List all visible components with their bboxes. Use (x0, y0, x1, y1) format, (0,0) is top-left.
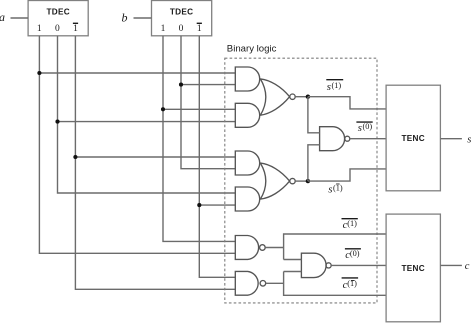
wire U2 output 1 vertical (163, 36, 235, 242)
nand gate G10 body (301, 253, 326, 277)
net label cbar(1bar) (343, 279, 358, 291)
and gate G3 (235, 151, 259, 175)
svg-text:1: 1 (161, 24, 166, 34)
svg-text:TENC: TENC (401, 264, 425, 273)
nand gate G8 body (235, 236, 258, 260)
nor gate G5 bubble (290, 94, 295, 99)
wire output s (440, 138, 462, 140)
nand gate G9 bubble (260, 281, 266, 287)
and gate G1 (235, 67, 259, 91)
node junction b1bar (197, 203, 201, 207)
svg-text:1: 1 (37, 24, 42, 34)
nor gate G5 body (260, 79, 289, 115)
node junction a0 (55, 120, 59, 124)
wire U2 output 0 vertical (181, 36, 235, 169)
svg-text:TDEC: TDEC (170, 8, 194, 17)
nor gate G6 bubble (290, 178, 295, 183)
svg-text:0: 0 (55, 24, 60, 34)
node junction b1 (161, 107, 165, 111)
wire cbar1bar branch to TENC (284, 272, 387, 296)
encoder U4 (TENC) box (386, 214, 440, 322)
nand gate G9 body (235, 271, 258, 295)
svg-text:1: 1 (197, 24, 202, 34)
svg-text:(1): (1) (333, 183, 343, 192)
wire sbar1 to TENC (308, 97, 386, 109)
net label cbar(1) (343, 219, 358, 231)
svg-text:(1): (1) (332, 81, 342, 90)
nand gate G7 bubble (345, 136, 350, 141)
wire nand G10 output cbar0 (331, 264, 386, 266)
wire AND2 bottom input (58, 121, 236, 123)
net label sbar(1) (327, 81, 342, 93)
wire nor G6 output (295, 180, 308, 182)
node junction b0 (179, 83, 183, 87)
encoder U3 (TENC) box (386, 85, 440, 191)
svg-text:TENC: TENC (401, 134, 425, 143)
wire AND1 top input (39, 72, 235, 74)
wire U1 output 1 vertical (39, 36, 235, 254)
svg-text:1: 1 (73, 24, 78, 34)
svg-text:(0): (0) (350, 249, 360, 258)
node s1bar junction (306, 179, 310, 183)
decoder U2 (TDEC) box (152, 1, 212, 36)
wire nor G5 output (295, 96, 308, 98)
wire AND2 top input (163, 108, 235, 110)
wire s1bar up to nand G7 bottom input (308, 145, 320, 181)
svg-text:TDEC: TDEC (46, 8, 70, 17)
svg-text:Binary logic: Binary logic (227, 43, 277, 54)
wire cbar1 branch to TENC (284, 234, 387, 260)
nand gate G8 bubble (260, 245, 266, 251)
wire U2 output 1bar vertical (199, 36, 235, 277)
wire nand G9 output (266, 282, 284, 284)
net label cbar(0) (345, 249, 360, 261)
wire s1bar to TENC (308, 169, 386, 181)
svg-text:s: s (358, 122, 362, 134)
dashed box Binary logic (225, 58, 377, 303)
wire AND3 top input (75, 156, 235, 158)
wire branch to nand G10 top input (284, 259, 302, 261)
svg-text:(1): (1) (347, 219, 357, 228)
svg-text:a: a (0, 10, 5, 24)
nor gate G6 body (260, 163, 289, 199)
svg-text:s: s (328, 183, 332, 195)
decoder U1 (TDEC) box (28, 1, 88, 36)
net label s(1bar) (328, 183, 343, 195)
svg-text:c: c (465, 261, 470, 272)
svg-text:(0): (0) (363, 122, 373, 131)
wire input b (134, 17, 152, 19)
and gate G2 (235, 103, 259, 127)
wire U1 output 1bar vertical (75, 36, 235, 289)
net label sbar(0) (358, 122, 373, 134)
wire U1 output 0 vertical (58, 36, 236, 193)
wire sbar1 down to nand G7 top input (308, 97, 320, 133)
node junction a1bar (73, 155, 77, 159)
wire AND1 bottom input (181, 84, 235, 86)
wire nand G7 output sbar0 (350, 138, 386, 140)
nand gate G7 body (320, 127, 345, 151)
node junction a1 (37, 71, 41, 75)
svg-text:b: b (122, 10, 128, 24)
wire AND4 bottom input (199, 204, 235, 206)
wire output c (440, 264, 462, 266)
wire branch to nand G10 bottom input (284, 271, 302, 273)
node sbar1 junction (306, 95, 310, 99)
svg-text:s: s (327, 81, 331, 93)
nand gate G10 bubble (326, 263, 331, 268)
wire nand G8 output (265, 247, 283, 249)
and gate G4 (235, 187, 259, 211)
wire input a (11, 17, 29, 19)
svg-text:0: 0 (179, 24, 184, 34)
svg-text:s: s (467, 134, 471, 145)
